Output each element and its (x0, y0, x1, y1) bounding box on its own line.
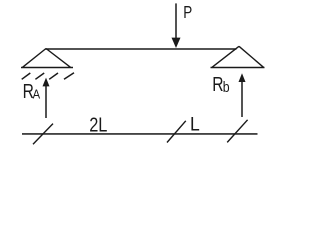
svg-text:2L: 2L (89, 113, 107, 136)
svg-text:A: A (33, 87, 41, 102)
svg-text:L: L (190, 113, 200, 135)
svg-text:R: R (212, 73, 223, 95)
svg-text:P: P (183, 3, 192, 22)
svg-text:b: b (223, 79, 230, 95)
